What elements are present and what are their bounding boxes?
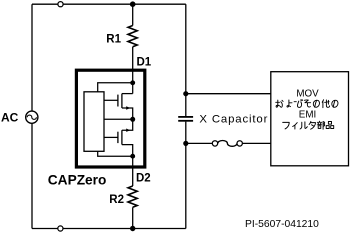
- wire: top bus from left corner to right corner: [32, 3, 186, 5]
- transistor Q2 arrow toward node B: [126, 129, 130, 132]
- wire: Q1 source lead to node B: [122, 108, 133, 119]
- glyph そ: [304, 100, 310, 107]
- AC source V1 circle: [26, 111, 38, 123]
- label およびその他の (line 2 in block, hand-drawn glyphs): [276, 100, 338, 108]
- MOV / EMI filter block box: [271, 72, 349, 166]
- glyph タ: [309, 121, 315, 129]
- transistor Q2 channel bar: [121, 130, 123, 144]
- glyph 品: [326, 122, 334, 129]
- svg-text:EMI: EMI: [299, 110, 316, 121]
- fuse/thermistor element: left terminal circle: [212, 141, 217, 146]
- transistor Q2 gate bar: [117, 132, 119, 143]
- node A junction dot: [130, 80, 135, 85]
- svg-text:R1: R1: [106, 33, 121, 45]
- resistor R1: [128, 26, 137, 47]
- wire: internal mid sense link (control block to node B): [104, 118, 133, 120]
- wire: node to MOV box upper: [186, 93, 271, 95]
- svg-text:PI-5607-041210: PI-5607-041210: [245, 219, 319, 230]
- resistor R2: [128, 186, 137, 207]
- control block (internal regulator rectangle): [84, 92, 104, 152]
- AC source sine wave: [27, 115, 36, 119]
- fuse/thermistor element: right terminal circle: [237, 141, 242, 146]
- glyph 他: [322, 100, 329, 108]
- wire: D2 pin leaving package: [132, 156, 134, 167]
- label フィルタ部品 (line 4 in block, hand-drawn glyphs): [283, 121, 334, 129]
- junction dot: top bus / R1 branch: [130, 1, 136, 7]
- svg-text:R2: R2: [109, 194, 124, 206]
- capacitor CX top plate: [178, 116, 193, 118]
- IC U1 CAPZero package outline: [76, 70, 144, 167]
- wire: left vertical (AC branch): [31, 4, 33, 228]
- wire: R2 to bottom bus: [132, 207, 134, 228]
- svg-text:AC: AC: [1, 111, 19, 125]
- junction dot: bottom bus / R2 branch: [130, 226, 135, 231]
- svg-text:D1: D1: [137, 57, 152, 69]
- fuse/thermistor element: wavy body: [218, 141, 237, 147]
- terminal: open circle on top bus: [58, 2, 63, 7]
- glyph の: [313, 100, 319, 107]
- wire: bottom bus: [32, 228, 186, 230]
- glyph よ: [287, 100, 292, 107]
- transistor Q1 channel bar: [121, 94, 123, 108]
- wire: Q2 source lead to node C: [122, 145, 133, 157]
- svg-text:CAPZero: CAPZero: [48, 172, 107, 187]
- wire: R1 branch top lead: [132, 4, 134, 25]
- terminal: open circle on bottom bus: [58, 226, 63, 231]
- glyph 部: [317, 121, 324, 129]
- wire: internal bottom sense link (control block to node C): [98, 151, 133, 156]
- glyph フ: [283, 122, 290, 129]
- wire: right vertical lower segment (from X capacitor bottom plate): [185, 122, 187, 229]
- svg-text:X Capacitor: X Capacitor: [199, 114, 268, 126]
- svg-text:D2: D2: [136, 172, 151, 184]
- wire: Q2 gate wire: [104, 136, 118, 138]
- wire: node to fuse to MOV box lower: [186, 142, 271, 144]
- wire: Q1 gate wire: [104, 99, 118, 101]
- glyph の: [332, 100, 338, 107]
- wire: node A down to Q1 drain level: [132, 83, 134, 94]
- glyph お: [276, 100, 283, 107]
- capacitor CX bottom plate: [178, 120, 193, 122]
- glyph ル: [300, 122, 307, 129]
- transistor Q1 source arrow: [126, 106, 130, 109]
- wire: R1 to CAPZero D1 pin: [132, 47, 134, 70]
- glyph ィ: [293, 123, 298, 129]
- wire: D1 pin entering package to node A: [132, 70, 134, 83]
- glyph び: [294, 100, 303, 108]
- junction dot: X capacitor top node: [183, 91, 188, 96]
- node B junction dot: [130, 117, 135, 122]
- wire: right vertical upper segment (to X capacitor top plate): [185, 4, 187, 116]
- wire: internal top sense link (control block to node A): [98, 83, 133, 92]
- junction dot: X capacitor bottom node: [183, 141, 188, 146]
- transistor Q1 gate bar: [117, 95, 119, 107]
- wire: node B down to Q2 drain lead: [122, 119, 133, 130]
- wire: D2 pin to R2: [132, 167, 134, 186]
- svg-text:MOV: MOV: [296, 88, 319, 99]
- wire: Q1 drain lead: [122, 93, 133, 95]
- node C junction dot: [130, 154, 135, 159]
